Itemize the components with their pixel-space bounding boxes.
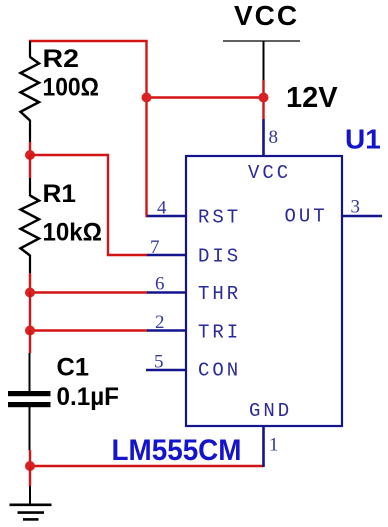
- svg-text:3: 3: [351, 197, 361, 218]
- wire: TRI node to pin 2: [30, 329, 148, 331]
- svg-text:RST: RST: [198, 207, 241, 229]
- svg-text:10kΩ: 10kΩ: [43, 219, 103, 247]
- wire: node to pin 7 DIS: [30, 155, 148, 255]
- resistor R2: [21, 41, 100, 142]
- svg-text:4: 4: [157, 198, 167, 219]
- wire: ground node to pin 1 GND: [30, 465, 264, 467]
- junction dot TRI node: [25, 326, 35, 336]
- wire: node down to R1: [29, 155, 31, 178]
- wire: R1 bottom to THR node: [29, 273, 31, 292]
- junction dot R1-R2 node: [25, 150, 35, 160]
- pin 4 (RST): [147, 198, 186, 219]
- power symbol VCC: [223, 0, 300, 80]
- svg-text:R2: R2: [43, 45, 80, 73]
- svg-text:5: 5: [154, 352, 164, 373]
- junction dot at VCC stem: [259, 93, 269, 103]
- svg-text:LM555CM: LM555CM: [112, 434, 242, 467]
- wire: THR node to pin 6: [30, 291, 148, 293]
- pin 2 (TRI): [147, 312, 186, 333]
- svg-text:CON: CON: [198, 360, 241, 382]
- svg-text:DIS: DIS: [198, 246, 241, 268]
- svg-text:OUT: OUT: [285, 206, 328, 228]
- IC U1 LM555CM body: [186, 156, 342, 426]
- svg-text:12V: 12V: [286, 82, 338, 114]
- ground: [10, 486, 52, 519]
- resistor R1: [21, 178, 103, 273]
- svg-text:C1: C1: [57, 354, 90, 382]
- pin 6 (THR): [147, 274, 186, 295]
- capacitor C1: [8, 353, 119, 450]
- wire: rail TRI to C1: [29, 330, 31, 353]
- svg-text:0.1µF: 0.1µF: [57, 383, 120, 411]
- svg-text:R1: R1: [43, 180, 77, 208]
- wire: junction to VCC stem: [147, 96, 264, 98]
- svg-text:8: 8: [269, 127, 279, 148]
- wire: R2 top across and down to pin 4 RST: [29, 41, 148, 216]
- wire: VCC stem to pin 8: [262, 80, 264, 119]
- pin 1 (GND): [264, 426, 279, 467]
- svg-text:U1: U1: [345, 124, 381, 155]
- wire: rail THR to TRI: [29, 292, 31, 330]
- svg-text:6: 6: [155, 274, 165, 295]
- svg-text:2: 2: [155, 312, 165, 333]
- pin 3 (OUT): [342, 197, 382, 218]
- svg-text:GND: GND: [249, 400, 292, 422]
- pin 5 (CON): [146, 352, 186, 373]
- wire: node to ground symbol: [29, 466, 31, 486]
- junction dot ground node: [25, 461, 35, 471]
- svg-text:VCC: VCC: [248, 162, 291, 184]
- svg-text:VCC: VCC: [234, 0, 299, 31]
- wire: C1 bottom to ground node: [29, 450, 31, 466]
- svg-text:1: 1: [269, 435, 279, 456]
- svg-text:TRI: TRI: [198, 322, 241, 344]
- svg-text:100Ω: 100Ω: [43, 74, 100, 102]
- pin 8 (VCC): [264, 119, 279, 156]
- junction dot THR node: [25, 288, 35, 298]
- svg-text:7: 7: [150, 237, 160, 258]
- svg-text:THR: THR: [198, 283, 241, 305]
- junction dot on RST wire: [142, 93, 152, 103]
- pin 7 (DIS): [147, 237, 186, 258]
- wire: R2 bottom to node: [29, 142, 31, 155]
